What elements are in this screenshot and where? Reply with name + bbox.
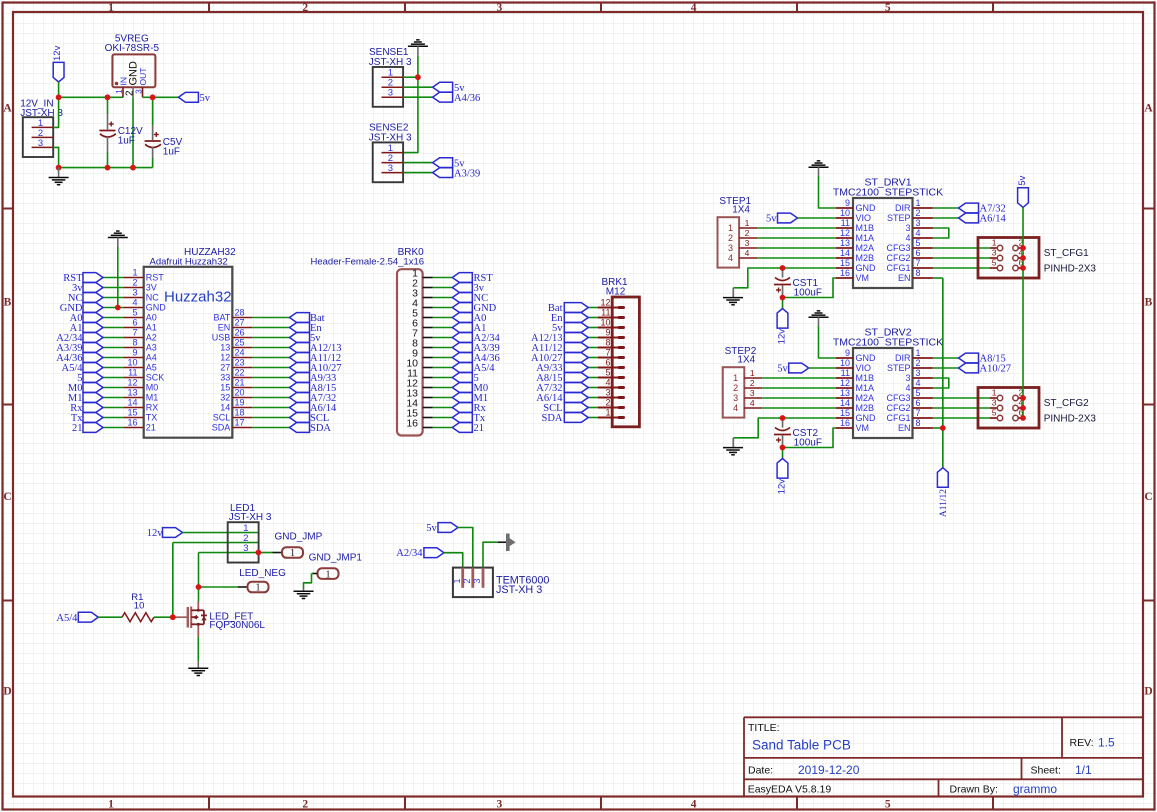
wire BRK0 pin 3 [433,297,453,299]
net flag Tx (HUZZAH32 left) [71,413,103,424]
svg-text:M0: M0 [146,383,159,393]
svg-text:1: 1 [108,2,114,14]
svg-text:9: 9 [605,328,610,338]
net flag GND (HUZZAH32 left) [60,303,103,314]
net flag RST (BRK0) [452,273,493,284]
svg-text:M2A: M2A [856,393,875,403]
jumper pad LED_NEG [239,568,286,594]
net flag A10/27 [959,363,1012,374]
svg-text:3: 3 [916,218,921,228]
svg-text:M1A: M1A [856,383,875,393]
wire STEP1 pin3 to motor pin [757,247,836,249]
wire BRK1 pin 4 [588,387,598,389]
svg-text:4: 4 [733,403,738,413]
net flag 12v below CST2 [777,459,788,495]
svg-text:5: 5 [916,238,921,248]
wire STEP1 pin2 to motor pin [757,237,836,239]
svg-text:2: 2 [916,208,921,218]
svg-text:M2A: M2A [856,243,875,253]
capacitor C12V 1uF [99,97,143,167]
net flag A1 (BRK0) [452,323,486,334]
wire STEP2 pin4 to motor pin [762,407,836,409]
svg-text:VIO: VIO [856,213,872,223]
svg-text:27: 27 [220,363,230,373]
wire BRK1 pin 1 [588,417,598,419]
net flag A5/4 [56,612,98,624]
svg-text:1: 1 [290,548,295,559]
svg-text:CFG2: CFG2 [886,253,910,263]
net flag 12v [52,45,64,82]
net flag A1 (HUZZAH32 left) [70,323,103,334]
net flag M1 (HUZZAH32 left) [68,393,103,404]
svg-text:1/1: 1/1 [1075,763,1092,777]
svg-text:GND: GND [856,263,877,273]
svg-text:5: 5 [992,258,997,268]
jumper pad GND_JMP1 [309,553,363,581]
svg-text:5: 5 [992,408,997,418]
svg-text:GND: GND [856,353,877,363]
title block [744,717,1143,796]
svg-text:1: 1 [916,348,921,358]
svg-text:16: 16 [840,268,850,278]
net flag A5/4 (HUZZAH32 left) [62,363,104,374]
svg-text:FQP30N06L: FQP30N06L [209,620,265,631]
svg-text:11: 11 [128,368,137,378]
svg-text:A5/4: A5/4 [56,613,78,624]
svg-text:2: 2 [733,383,738,393]
svg-text:21: 21 [474,423,485,434]
net flag 3v (HUZZAH32 left) [72,283,103,294]
connector BRK1 M12 [598,277,639,427]
svg-text:1.5: 1.5 [1098,736,1115,750]
net flag M1 (BRK0) [452,393,488,404]
net flag 12v below CST1 [777,309,788,345]
svg-text:grammo: grammo [1013,782,1057,796]
svg-text:10: 10 [600,318,610,328]
svg-text:16: 16 [406,417,418,429]
wire BRK0 pin 5 [433,317,453,319]
svg-text:EN: EN [218,323,231,333]
svg-text:DIR: DIR [895,203,911,213]
net flag 5v ST_DRV2 VIO [777,363,809,374]
svg-text:DIR: DIR [895,353,911,363]
svg-text:CFG2: CFG2 [886,403,910,413]
svg-text:1: 1 [992,388,997,398]
wire ST_DRV2 pins 3-4 loop [933,378,949,388]
svg-text:CFG3: CFG3 [886,393,910,403]
svg-text:5: 5 [885,799,891,811]
svg-text:3: 3 [905,373,910,383]
net flag Rx (BRK0) [452,403,486,414]
svg-text:3: 3 [38,138,43,149]
wire 5v to TEMT6000 pin2 [458,528,473,568]
svg-text:2: 2 [302,799,308,811]
svg-text:1: 1 [256,583,261,594]
svg-text:4: 4 [605,378,610,388]
wire BRK0 pin 2 [433,287,453,289]
net flag 5 (BRK0) [452,373,478,384]
svg-text:15: 15 [840,258,850,268]
connector ST_CFG1 PINHD-2X3 [978,238,1096,279]
connector STEP2 1X4 [723,346,763,418]
svg-text:13: 13 [840,388,850,398]
svg-text:PINHD-2X3: PINHD-2X3 [1044,264,1097,275]
svg-text:A1: A1 [146,323,157,333]
svg-text:15: 15 [840,408,850,418]
wire HUZZAH32 pin 28 [252,317,289,319]
wire LED_NEG to FET drain [198,587,200,602]
net flag A8/15 [959,353,1006,364]
net flag NC (HUZZAH32 left) [68,293,103,304]
wire HUZZAH32 pin 19 [252,407,289,409]
svg-text:8: 8 [916,268,921,278]
wire SENSE1 pin2 to 5v [403,86,433,88]
svg-text:D: D [1144,685,1152,697]
wire 5v to VIO pin10 [809,367,836,369]
svg-text:3: 3 [605,388,610,398]
svg-text:14: 14 [840,398,850,408]
svg-text:15: 15 [127,408,137,418]
node HUZZAH32 GND junction [115,305,121,311]
wire 12V_IN pin1 to 12v [53,97,58,127]
net flag 5v ST_DRV1 VIO [766,213,798,224]
svg-text:19: 19 [235,398,245,408]
wire HUZZAH32 pin 24 [252,357,289,359]
wire HUZZAH32 pin 2 [103,287,123,289]
wire BRK1 pin 12 [588,307,598,309]
wire STEP2 pin2 to motor pin [762,387,836,389]
net flag 5v SENSE2 [433,158,466,170]
svg-text:12: 12 [840,378,850,388]
wire BRK0 pin 4 [433,307,453,309]
wire A5/4 to R1 [98,616,122,618]
net flag 5v SENSE1 [433,82,466,94]
net flag A10/27 (BRK1) [531,353,588,364]
svg-text:CFG1: CFG1 [886,413,910,423]
svg-text:2: 2 [728,233,733,243]
svg-text:24: 24 [235,348,245,358]
wire BRK1 pin 6 [588,367,598,369]
wire HUZZAH32 pin 13 [103,397,123,399]
svg-text:4: 4 [916,228,921,238]
wire BRK1 pin 2 [588,407,598,409]
svg-text:2: 2 [745,228,750,238]
svg-text:LED_NEG: LED_NEG [239,568,286,579]
svg-text:2019-12-20: 2019-12-20 [798,763,860,777]
svg-text:2: 2 [916,358,921,368]
wire pin3 net down to LED_NEG [198,553,200,588]
svg-text:2: 2 [605,398,610,408]
node 12v junction [56,94,62,100]
wire BRK1 pin 10 [588,327,598,329]
svg-text:USB: USB [212,333,231,343]
wire A2/34 to TEMT6000 pin1 [444,553,463,568]
net flag A3/39 (BRK0) [452,343,499,354]
wire ground to HUZZAH32 GND pin [117,247,119,308]
net flag Bat (HUZZAH32 right) [290,313,325,324]
net flag A5/4 (BRK0) [452,363,495,374]
svg-text:VM: VM [856,423,870,433]
svg-text:Sand Table PCB: Sand Table PCB [752,738,851,753]
svg-text:8: 8 [605,338,610,348]
wire BRK1 pin 7 [588,357,598,359]
svg-text:3: 3 [992,398,997,408]
svg-text:Drawn By:: Drawn By: [950,783,998,795]
svg-text:3: 3 [728,243,733,253]
node C5V top junction [150,94,156,100]
net flag 12v LED1 [147,528,183,539]
net flag En (HUZZAH32 right) [290,323,323,334]
svg-text:2: 2 [302,2,308,14]
svg-text:3: 3 [733,393,738,403]
svg-text:18: 18 [235,408,245,418]
net flag A7/32 (BRK1) [536,383,588,394]
svg-text:B: B [1145,297,1153,309]
wire BRK0 pin 6 [433,327,453,329]
node SENSE1 gnd junction [415,74,421,80]
svg-text:VM: VM [856,273,870,283]
svg-text:27: 27 [235,318,245,328]
svg-text:1: 1 [733,373,738,383]
net flag Bat (BRK1) [548,303,588,314]
mcu U2 HUZZAH32 Adafruit Huzzah32 [123,247,252,438]
ground at STEP2 [723,438,743,455]
net flag 5 (HUZZAH32 left) [77,373,103,384]
wire BRK0 pin 15 [433,417,453,419]
svg-text:10: 10 [840,358,850,368]
svg-text:12v: 12v [777,479,788,495]
wire BRK0 pin 11 [433,377,453,379]
wire HUZZAH32 pin 23 [252,367,289,369]
net flag A0 (HUZZAH32 left) [70,313,103,324]
wire 12v bus [59,96,123,98]
svg-text:14: 14 [220,403,230,413]
connector BRK0 Header-Female-2.54_1x16 [311,247,433,435]
svg-text:3: 3 [497,799,503,811]
svg-text:OKI-78SR-5: OKI-78SR-5 [105,43,160,54]
svg-text:SDA: SDA [541,413,562,424]
svg-text:A6/14: A6/14 [980,214,1007,225]
svg-text:12: 12 [600,298,610,308]
power flag gray arrow [506,534,516,552]
svg-text:5v: 5v [200,93,211,104]
wire BRK1 pin 9 [588,337,598,339]
net flag 5v above ST_CFG1 [1017,175,1029,207]
svg-text:M2B: M2B [856,403,875,413]
svg-text:1X4: 1X4 [732,205,750,216]
net flag A8/15 (HUZZAH32 right) [290,383,337,394]
svg-text:16: 16 [127,418,137,428]
svg-text:D: D [3,685,11,697]
resistor R1 10 [122,592,154,622]
regulator U1 5VREG OKI-78SR-5 [105,34,160,98]
svg-text:TMC2100_STEPSTICK: TMC2100_STEPSTICK [833,336,943,348]
wire GND_JMP1 to ground [304,574,318,589]
svg-text:M2B: M2B [856,253,875,263]
svg-text:6: 6 [605,358,610,368]
svg-text:JST-XH 3: JST-XH 3 [496,584,542,596]
svg-text:12: 12 [220,353,230,363]
wire 12V_IN pin3 to ground bus [53,147,58,167]
svg-text:7: 7 [132,328,137,338]
svg-text:21: 21 [235,378,245,388]
svg-text:JST-XH 3: JST-XH 3 [229,512,272,523]
svg-text:GND: GND [146,303,167,313]
wire 12v to LED1 pin1 [183,532,259,534]
svg-text:1: 1 [326,569,331,580]
svg-text:5: 5 [916,388,921,398]
wire ST_DRV2 GND pin15 to ground [733,418,836,438]
net flag A9/33 (BRK1) [536,363,588,374]
wire 5v vertical to ST_CFG pins [1022,207,1024,418]
svg-text:B: B [4,297,12,309]
wire CFG3 to ST_CFG2 [933,397,990,399]
net flag A6/14 (BRK1) [536,393,588,404]
wire ST_DRV1 GND pin9 [819,176,837,208]
svg-text:EasyEDA V5.8.19: EasyEDA V5.8.19 [748,783,832,795]
wire ST_DRV1 STEP [933,217,959,219]
wire HUZZAH32 pin 7 [103,337,123,339]
svg-text:10: 10 [840,208,850,218]
svg-text:CFG3: CFG3 [886,243,910,253]
driver module ST_DRV2 TMC2100_STEPSTICK [833,327,943,439]
ground at STEP1 [723,288,743,305]
svg-text:1: 1 [992,238,997,248]
wire FET source to ground [197,637,199,661]
svg-text:1: 1 [605,408,610,418]
node CST1 bottom junction [780,295,786,301]
node CST2 top junction [780,415,786,421]
svg-text:A4/36: A4/36 [454,93,480,104]
net flag Rx (HUZZAH32 left) [70,403,103,414]
svg-text:A2/34: A2/34 [396,548,423,559]
svg-text:M1B: M1B [856,373,875,383]
wire 5v from regulator OUT [143,96,179,98]
net flag SDA (BRK1) [541,413,588,424]
net flag A3/39 [433,168,481,180]
svg-text:OUT: OUT [138,68,148,86]
net flag SCL (BRK1) [543,403,588,414]
svg-text:TX: TX [146,413,158,423]
net flag A12/13 (BRK1) [531,333,588,344]
svg-text:GND_JMP: GND_JMP [275,532,323,543]
svg-text:22: 22 [235,368,245,378]
svg-text:PINHD-2X3: PINHD-2X3 [1044,414,1097,425]
wire HUZZAH32 pin 14 [103,407,123,409]
svg-text:7: 7 [605,348,610,358]
connector ST_CFG2 PINHD-2X3 [978,388,1096,429]
svg-text:5v: 5v [777,364,788,375]
svg-text:4: 4 [750,398,755,408]
svg-text:VIO: VIO [856,363,872,373]
wire ST_DRV1 pins 3-4 loop [933,228,949,238]
net flag A6/14 (HUZZAH32 right) [290,403,338,414]
svg-text:6: 6 [132,318,137,328]
wire HUZZAH32 pin 18 [252,417,289,419]
wire HUZZAH32 pin 6 [103,327,123,329]
wire LED1 pin3 to GND_JMP [258,552,282,554]
svg-text:3: 3 [916,368,921,378]
ground above ST_DRV1 [809,161,829,176]
wire VM pin16 to 12v [783,278,837,309]
connector LED1 JST-XH 3 [228,503,272,563]
svg-text:M1: M1 [146,393,159,403]
svg-text:C: C [3,491,11,503]
connector STEP1 1X4 [718,196,758,268]
net flag 5v (BRK1) [552,323,588,334]
wire HUZZAH32 pin 8 [103,347,123,349]
svg-text:SDA: SDA [212,423,231,433]
svg-text:ST_CFG2: ST_CFG2 [1044,398,1089,409]
svg-text:20: 20 [235,388,245,398]
svg-text:Huzzah32: Huzzah32 [164,289,232,306]
svg-text:1uF: 1uF [163,146,180,157]
node ST_CFG2 5v junctions [1020,395,1026,421]
svg-text:16: 16 [840,418,850,428]
wire STEP1 pin1 to motor pin [757,227,836,229]
svg-text:13: 13 [840,238,850,248]
wire SENSE1 gnd to SENSE2 pin1 [403,77,418,152]
svg-text:Date:: Date: [748,765,773,777]
svg-text:4: 4 [905,383,910,393]
svg-text:15: 15 [220,383,230,393]
svg-text:TITLE:: TITLE: [748,722,780,734]
node CST2 bottom junction [780,445,786,451]
svg-text:A: A [1144,102,1153,114]
svg-text:21: 21 [72,423,83,434]
svg-text:28: 28 [235,308,245,318]
ground above SENSE1 [408,40,428,56]
svg-text:M1A: M1A [856,233,875,243]
net flag 3v (BRK0) [452,283,484,294]
net flag A9/33 (HUZZAH32 right) [290,373,337,384]
svg-text:4: 4 [691,2,697,14]
svg-text:1X4: 1X4 [737,355,755,366]
svg-text:2: 2 [750,378,755,388]
node ground bus junctions [56,165,136,171]
wire to LED_NEG pad [199,586,248,588]
svg-text:ST_CFG1: ST_CFG1 [1044,248,1089,259]
capacitor CST1 100uF [774,269,822,299]
svg-text:4: 4 [916,378,921,388]
net flag A2/34 (BRK0) [452,333,500,344]
svg-text:1uF: 1uF [118,136,135,147]
net flag Tx (BRK0) [452,413,486,424]
wire STEP2 pin1 to motor pin [762,377,836,379]
svg-text:3: 3 [750,388,755,398]
node CST1 top junction [780,265,786,271]
wire BRK1 pin 8 [588,347,598,349]
node gate junction [170,614,176,620]
svg-text:4: 4 [132,298,137,308]
net flag A7/32 [959,203,1006,214]
svg-text:3V: 3V [146,283,157,293]
wire BRK0 pin 9 [433,357,453,359]
wire ST_DRV2 GND pin9 [819,326,837,358]
wire SENSE2 pin3 to A3/39 [403,172,433,174]
net flag A10/27 (HUZZAH32 right) [290,363,342,374]
wire VM pin16 to 12v [783,428,837,459]
wire HUZZAH32 pin 17 [252,427,289,429]
svg-text:5: 5 [885,2,891,14]
wire HUZZAH32 pin 20 [252,397,289,399]
capacitor C5V 1uF [145,97,183,167]
connector SENSE1 JST-XH 3 [369,47,412,107]
svg-text:33: 33 [220,373,230,383]
net flag SDA (HUZZAH32 right) [290,423,332,434]
svg-text:6: 6 [916,248,921,258]
svg-text:TMC2100_STEPSTICK: TMC2100_STEPSTICK [833,186,943,198]
